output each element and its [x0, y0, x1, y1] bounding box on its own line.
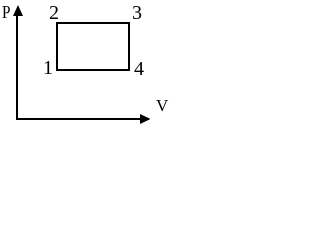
node 4 label: [134, 59, 144, 79]
V axis arrowhead: [140, 114, 150, 124]
V axis label: [156, 97, 168, 114]
node 2 label: [49, 3, 59, 23]
P axis arrowhead: [13, 5, 23, 16]
P axis (vertical arrow) wire: [16, 10, 18, 120]
P axis label: [2, 3, 11, 21]
process rectangle 1-2-3-4: [56, 22, 130, 71]
node 1 label: [43, 58, 53, 78]
node 3 label: [132, 3, 142, 23]
V axis (horizontal arrow) wire: [16, 118, 142, 120]
